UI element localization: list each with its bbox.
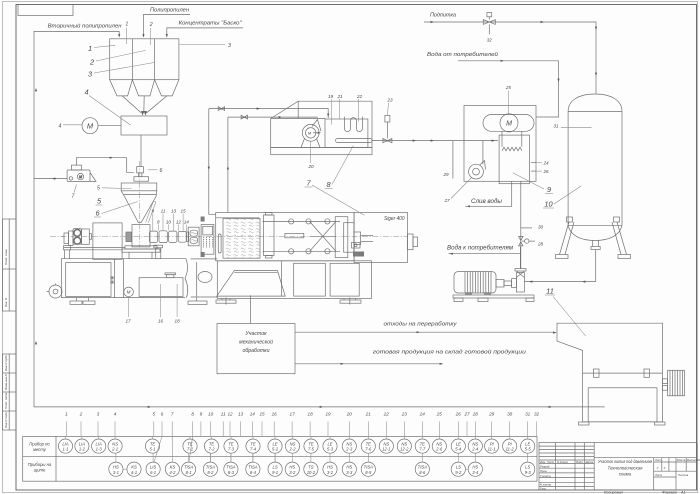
svg-text:TS: TS xyxy=(308,464,314,469)
feeder 6 on hopper 5 xyxy=(134,167,149,182)
motor M of mixer xyxy=(59,118,121,134)
hopper 1-3 bank xyxy=(110,39,179,96)
instrument NS 2-2 xyxy=(285,439,299,453)
svg-text:7: 7 xyxy=(171,412,174,417)
svg-text:4-2: 4-2 xyxy=(169,470,176,475)
svg-text:KS: KS xyxy=(170,464,176,469)
svg-text:12-2: 12-2 xyxy=(400,447,409,452)
svg-text:Формат: Формат xyxy=(662,490,677,494)
tick 30 xyxy=(521,227,532,229)
instrument TISA 8-4 xyxy=(246,462,260,476)
svg-text:Масштаб: Масштаб xyxy=(687,458,700,462)
svg-text:32: 32 xyxy=(534,412,540,417)
svg-text:7-3: 7-3 xyxy=(228,447,235,452)
svg-text:5-2: 5-2 xyxy=(272,447,279,452)
wire: product to warehouse xyxy=(295,363,443,365)
svg-text:8: 8 xyxy=(191,412,194,417)
svg-text:8-4: 8-4 xyxy=(250,470,257,475)
barrel heater zone 14/15 xyxy=(178,231,186,242)
svg-text:Подп.: Подп. xyxy=(576,460,584,464)
svg-text:9-2: 9-2 xyxy=(455,470,462,475)
svg-text:1-3: 1-3 xyxy=(96,447,103,452)
wire: polypropylene feed xyxy=(142,14,190,37)
svg-text:12: 12 xyxy=(176,220,182,225)
svg-text:HS: HS xyxy=(289,464,295,469)
svg-text:3-2: 3-2 xyxy=(327,470,334,475)
evaporator coil xyxy=(502,147,522,151)
thermostat blower M xyxy=(301,120,321,148)
injection unit internals xyxy=(344,223,373,253)
feed throat housing xyxy=(132,225,150,247)
valve on supply line xyxy=(218,107,224,111)
instrument HS 3-2 xyxy=(285,462,299,476)
instrument TISA 8-2 xyxy=(203,462,217,476)
instrument LIS 6-1 xyxy=(146,462,160,476)
svg-text:Вторичный полипропилен: Вторичный полипропилен xyxy=(48,23,122,30)
svg-text:HS: HS xyxy=(472,464,478,469)
svg-text:NS: NS xyxy=(436,441,442,446)
svg-text:9: 9 xyxy=(200,412,203,417)
extruder drive end flange xyxy=(64,233,69,244)
svg-text:2: 2 xyxy=(79,412,83,417)
machining section box xyxy=(217,324,295,374)
instrument TISA 8-6 xyxy=(415,462,429,476)
svg-text:TE: TE xyxy=(228,441,234,446)
instrument TE 7-3 xyxy=(224,439,238,453)
instrument TE 7-7 xyxy=(415,439,429,453)
probes 19 21 22 xyxy=(331,99,358,125)
shredder motor xyxy=(662,370,684,396)
instrument KS 4-2 xyxy=(165,462,179,476)
svg-text:Участок: Участок xyxy=(245,331,267,337)
svg-text:2-2: 2-2 xyxy=(288,447,296,452)
barrel end flange xyxy=(186,232,188,241)
zone labels 8 10 12 14 xyxy=(157,220,189,225)
svg-text:7-4: 7-4 xyxy=(250,447,257,452)
wire: branch 29 down xyxy=(452,141,454,179)
svg-text:26: 26 xyxy=(543,169,550,174)
thermostat 8 xyxy=(271,101,372,155)
oval sight glass on inter-base xyxy=(198,272,212,283)
instrument KS 4-1 xyxy=(127,462,141,476)
svg-text:28: 28 xyxy=(472,412,479,417)
svg-text:7-5: 7-5 xyxy=(308,447,315,452)
svg-text:20: 20 xyxy=(307,164,314,169)
extruder motor block xyxy=(89,234,91,240)
instrument HS 3-2 xyxy=(323,462,337,476)
shredder 11 xyxy=(557,323,662,422)
svg-text:Листов: Листов xyxy=(677,473,689,477)
valve 32 with actuator xyxy=(483,13,495,35)
svg-text:3: 3 xyxy=(228,43,231,49)
svg-text:6: 6 xyxy=(161,412,164,417)
instrument HS 3-1 xyxy=(109,462,123,476)
instrument PI 11-1 xyxy=(485,439,499,453)
svg-text:TE: TE xyxy=(420,441,426,446)
svg-text:LE: LE xyxy=(525,441,530,446)
instrument LE 5-3 xyxy=(323,439,337,453)
instrument TISA 8-1 xyxy=(182,462,196,476)
instrument NS 2-3 xyxy=(342,439,356,453)
node: hopper discharge convergence xyxy=(122,96,167,115)
extruder coupling xyxy=(82,229,90,244)
wire: mixer discharge xyxy=(140,135,142,167)
svg-text:NS: NS xyxy=(346,441,352,446)
svg-text:15: 15 xyxy=(181,209,187,214)
svg-text:4: 4 xyxy=(84,88,88,97)
svg-text:3-4: 3-4 xyxy=(472,470,479,475)
node: recycled polypropylene return line xyxy=(34,31,605,408)
vacuum loader 7 xyxy=(67,165,96,181)
barrel support pedestal xyxy=(154,245,163,259)
svg-text:Инв.N подл: Инв.N подл xyxy=(4,412,8,428)
heater coil in thermostat xyxy=(344,117,362,132)
thrust bearing xyxy=(126,232,132,242)
mold water manifolds xyxy=(201,217,205,222)
top-left corner box xyxy=(18,5,73,16)
svg-text:TISA: TISA xyxy=(364,464,374,469)
wire: supply line to thermostat xyxy=(209,108,330,119)
instrument LIA 1-1 xyxy=(58,439,72,453)
svg-text:HS: HS xyxy=(113,464,119,469)
instrument TE 7-5 xyxy=(304,439,318,453)
pump 27 xyxy=(469,161,486,180)
svg-text:2-6: 2-6 xyxy=(435,447,443,452)
svg-text:28: 28 xyxy=(537,242,544,247)
svg-text:1: 1 xyxy=(88,44,92,53)
svg-text:отходы на переработку: отходы на переработку xyxy=(384,322,458,328)
svg-text:5-5: 5-5 xyxy=(525,447,532,452)
svg-text:12: 12 xyxy=(227,412,233,417)
instrument LS 9-2 xyxy=(451,462,465,476)
toggle linkage xyxy=(310,221,337,251)
tank 10 xyxy=(568,94,622,241)
svg-text:8: 8 xyxy=(157,220,160,225)
shredder feet xyxy=(579,422,666,425)
svg-text:3: 3 xyxy=(97,412,100,417)
svg-text:LS: LS xyxy=(273,464,278,469)
wire: concentrate feed xyxy=(166,28,243,38)
svg-text:LS: LS xyxy=(456,464,461,469)
svg-text:LE: LE xyxy=(327,441,332,446)
wire: return line to thermostat xyxy=(228,116,318,118)
pump base xyxy=(453,295,534,302)
svg-text:TISA: TISA xyxy=(226,464,236,469)
pump casing xyxy=(515,247,526,292)
svg-text:8-5: 8-5 xyxy=(365,470,372,475)
svg-text:4-1: 4-1 xyxy=(131,470,137,475)
instrument LS 9-1 xyxy=(268,462,282,476)
svg-text:22: 22 xyxy=(356,94,363,99)
barrel heater zone 12/13 xyxy=(169,231,177,242)
svg-text:2-4: 2-4 xyxy=(471,447,479,452)
svg-text:LIA: LIA xyxy=(62,441,68,446)
svg-text:25: 25 xyxy=(436,412,443,417)
svg-text:11: 11 xyxy=(221,412,226,417)
tank legs xyxy=(556,217,631,259)
svg-text:10-2: 10-2 xyxy=(307,470,316,475)
svg-text:TE: TE xyxy=(150,441,156,446)
svg-text:Подп. дата: Подп. дата xyxy=(4,392,8,409)
svg-text:19: 19 xyxy=(325,412,331,417)
svg-text:18: 18 xyxy=(175,319,181,324)
svg-text:20: 20 xyxy=(346,412,353,417)
oil pump motor M in base xyxy=(124,287,134,297)
instrument NS 12-2 xyxy=(397,439,411,453)
svg-text:Технологическая: Технологическая xyxy=(608,466,644,471)
svg-text:Изм.: Изм. xyxy=(540,460,546,464)
instrument TS 10-2 xyxy=(304,462,318,476)
svg-text:6-1: 6-1 xyxy=(150,470,156,475)
wire: cooling return riser xyxy=(227,117,229,212)
svg-text:30: 30 xyxy=(538,224,544,229)
control cabinet with keypad xyxy=(201,225,214,255)
extruder gearbox xyxy=(93,223,122,259)
tank bottom outlet xyxy=(591,240,600,282)
injection molding machine body xyxy=(216,213,408,263)
instrument LS 9-3 xyxy=(521,462,535,476)
svg-text:2-3: 2-3 xyxy=(345,447,353,452)
svg-text:5-4: 5-4 xyxy=(455,447,462,452)
svg-text:16: 16 xyxy=(158,319,164,324)
svg-text:7-1: 7-1 xyxy=(187,447,193,452)
svg-text:Инв. N: Инв. N xyxy=(4,297,8,307)
svg-text:11-1: 11-1 xyxy=(488,447,496,452)
instrument LE 5-4 xyxy=(451,439,465,453)
wire: Вода к потребителям xyxy=(448,253,520,255)
svg-text:24: 24 xyxy=(543,161,550,166)
svg-text:27: 27 xyxy=(443,198,450,203)
slanted sampling chute xyxy=(146,201,156,223)
svg-text:5: 5 xyxy=(97,186,100,192)
feed throat mounting plates xyxy=(122,246,160,259)
svg-text:Утв.: Утв. xyxy=(540,487,547,491)
svg-text:5: 5 xyxy=(153,412,156,417)
svg-text:М: М xyxy=(79,175,82,179)
valve 23 with actuator xyxy=(383,116,392,143)
svg-text:Инв.N дубл: Инв.N дубл xyxy=(4,355,8,371)
mixer 4 xyxy=(121,116,167,135)
svg-text:Масса: Масса xyxy=(677,458,686,462)
svg-text:2-1: 2-1 xyxy=(111,447,118,452)
svg-text:HS: HS xyxy=(327,464,333,469)
svg-text:1-2: 1-2 xyxy=(79,447,86,452)
wire: cooling supply riser to machine xyxy=(208,109,216,215)
svg-text:NS: NS xyxy=(290,441,296,446)
svg-text:NS: NS xyxy=(112,441,118,446)
svg-text:9: 9 xyxy=(547,185,551,194)
svg-text:Лист: Лист xyxy=(654,473,663,477)
instrument HS 3-3 xyxy=(342,462,356,476)
svg-text:TE: TE xyxy=(308,441,314,446)
svg-text:щите: щите xyxy=(34,468,46,473)
chiller unit 9 xyxy=(464,106,536,184)
svg-text:механической: механической xyxy=(239,339,273,346)
svg-text:21: 21 xyxy=(336,94,343,99)
wire: waste to recycling xyxy=(295,331,557,334)
instrument NS 2-6 xyxy=(432,439,446,453)
svg-text:27: 27 xyxy=(463,412,470,417)
svg-text:23: 23 xyxy=(401,412,408,417)
machine feet xyxy=(216,298,361,305)
latch squares on base seam xyxy=(110,276,113,279)
svg-text:месту: месту xyxy=(33,447,47,452)
svg-text:1: 1 xyxy=(65,412,68,417)
svg-text:7-6: 7-6 xyxy=(365,447,372,452)
instrument LIA 1-3 xyxy=(92,439,106,453)
svg-text:Прибор по: Прибор по xyxy=(29,442,50,447)
svg-text:19: 19 xyxy=(328,94,334,99)
svg-text:5-1: 5-1 xyxy=(149,447,155,452)
svg-text:Дата: Дата xyxy=(585,460,594,464)
svg-text:Разраб.: Разраб. xyxy=(540,464,550,468)
svg-text:Вода от потребителей: Вода от потребителей xyxy=(427,51,498,58)
svg-text:8-1: 8-1 xyxy=(186,470,192,475)
svg-text:LE: LE xyxy=(272,441,277,446)
svg-text:11: 11 xyxy=(161,209,166,214)
valve on return line xyxy=(241,115,247,119)
svg-text:LIA: LIA xyxy=(79,441,85,446)
instrument TE 7-6 xyxy=(361,439,375,453)
handwheel left xyxy=(47,284,63,299)
svg-text:22: 22 xyxy=(383,412,390,417)
svg-text:4: 4 xyxy=(59,124,62,130)
svg-text:17: 17 xyxy=(290,412,296,417)
svg-text:Слив воды: Слив воды xyxy=(471,198,502,205)
nozzle guard blocks right xyxy=(408,234,418,250)
svg-text:NS: NS xyxy=(472,441,478,446)
instrument LIA 1-2 xyxy=(75,439,89,453)
svg-text:LIS: LIS xyxy=(150,464,156,469)
svg-text:TISA: TISA xyxy=(418,464,428,469)
svg-text:9: 9 xyxy=(152,209,155,214)
svg-text:8-3: 8-3 xyxy=(228,470,235,475)
instrument LE 5-5 xyxy=(521,439,535,453)
wire: Подпитка make-up xyxy=(424,21,597,94)
svg-text:15: 15 xyxy=(259,412,265,417)
title block xyxy=(539,443,697,491)
wire: tank to pump suction xyxy=(524,281,595,283)
svg-text:NS: NS xyxy=(383,441,389,446)
svg-text:Лит.: Лит. xyxy=(654,458,662,462)
svg-text:7-2: 7-2 xyxy=(208,447,215,452)
svg-text:25: 25 xyxy=(505,85,512,90)
centerline extruder/machine axis xyxy=(50,235,408,237)
machine base xyxy=(217,261,372,299)
svg-text:Подл. схем: Подл. схем xyxy=(4,250,8,265)
svg-text:N докум.: N докум. xyxy=(557,460,569,464)
svg-text:5-3: 5-3 xyxy=(327,447,334,452)
svg-text:1-1: 1-1 xyxy=(62,447,68,452)
svg-text:Вода к потребителям: Вода к потребителям xyxy=(447,245,514,252)
svg-text:М: М xyxy=(87,122,94,131)
barrel heater zone 10/11 xyxy=(159,231,167,243)
svg-text:KS: KS xyxy=(131,464,137,469)
hopper 5 (cone) xyxy=(121,183,157,222)
svg-text:32: 32 xyxy=(487,38,493,43)
svg-text:11-2: 11-2 xyxy=(506,447,515,452)
svg-text:6: 6 xyxy=(160,168,163,174)
level ticks 24 26 xyxy=(531,163,536,172)
svg-text:Концентраты "Баско": Концентраты "Баско" xyxy=(179,21,243,27)
svg-text:Приборы на: Приборы на xyxy=(28,462,52,467)
tie bars with nuts xyxy=(263,219,341,254)
svg-text:NS: NS xyxy=(401,441,407,446)
instrument LE 5-2 xyxy=(268,439,282,453)
wire: thermostat to chiller xyxy=(372,140,498,142)
svg-text:готовая продукция на склад: готовая продукция на склад готовой проду… xyxy=(373,349,526,356)
instrument NS 2-4 xyxy=(468,439,482,453)
svg-text:29: 29 xyxy=(488,412,495,417)
svg-text:23: 23 xyxy=(386,98,393,103)
svg-text:9-1: 9-1 xyxy=(272,470,278,475)
instrument TE 7-2 xyxy=(204,439,218,453)
svg-text:3-2: 3-2 xyxy=(289,470,296,475)
svg-text:1: 1 xyxy=(125,22,128,28)
svg-text:2: 2 xyxy=(149,22,153,28)
svg-text:12-1: 12-1 xyxy=(382,447,390,452)
wire: drain / Слив воды xyxy=(466,181,512,207)
svg-text:10: 10 xyxy=(544,200,553,209)
instrument TISA 8-3 xyxy=(224,462,238,476)
svg-text:26: 26 xyxy=(455,412,462,417)
svg-text:TE: TE xyxy=(366,441,372,446)
wire: loader suction from riser xyxy=(34,178,67,180)
wire: chilled water down to consumers xyxy=(520,181,522,268)
svg-text:2: 2 xyxy=(89,58,94,67)
svg-text:М: М xyxy=(506,121,512,128)
instrument PI 11-2 xyxy=(503,439,517,453)
svg-text:схема: схема xyxy=(619,472,632,477)
svg-text:LIA: LIA xyxy=(96,441,102,446)
svg-text:11: 11 xyxy=(546,287,554,296)
svg-text:13: 13 xyxy=(238,412,244,417)
svg-text:А1: А1 xyxy=(680,490,686,494)
svg-text:31: 31 xyxy=(553,124,559,129)
svg-text:LS: LS xyxy=(525,464,530,469)
instrument TE 5-1 xyxy=(145,439,159,453)
svg-text:31: 31 xyxy=(525,412,531,417)
barrel heater zone 8/9 xyxy=(149,231,157,242)
svg-text:Взам.инв.N: Взам.инв.N xyxy=(4,373,8,390)
svg-text:14: 14 xyxy=(250,412,256,417)
svg-text:3-1: 3-1 xyxy=(113,470,119,475)
svg-text:21: 21 xyxy=(365,412,372,417)
svg-text:Х: Х xyxy=(663,466,666,470)
svg-text:10: 10 xyxy=(208,412,214,417)
svg-text:TISA: TISA xyxy=(206,464,216,469)
zone labels 9 11 13 15 xyxy=(152,209,187,214)
svg-text:10: 10 xyxy=(166,220,172,225)
fixed platen xyxy=(335,217,348,258)
instrument TE 7-1 xyxy=(183,439,197,453)
instrument NS 12-1 xyxy=(379,439,393,453)
svg-text:24: 24 xyxy=(419,412,426,417)
svg-text:4: 4 xyxy=(114,412,117,417)
svg-text:29: 29 xyxy=(442,172,449,177)
svg-text:16: 16 xyxy=(272,412,278,417)
svg-text:17: 17 xyxy=(125,319,131,324)
svg-text:18: 18 xyxy=(308,412,314,417)
svg-text:Участок литья под давлением: Участок литья под давлением xyxy=(598,459,652,464)
instrument table xyxy=(23,436,537,481)
svg-text:TISA: TISA xyxy=(184,464,194,469)
svg-text:Siger 400: Siger 400 xyxy=(384,216,405,222)
svg-text:Полипропилен: Полипропилен xyxy=(150,8,189,14)
base rail xyxy=(64,246,126,259)
extruder base frame xyxy=(61,259,217,298)
svg-text:HS: HS xyxy=(346,464,352,469)
